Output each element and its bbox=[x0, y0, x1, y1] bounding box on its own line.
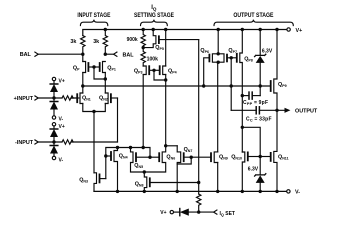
transistor QN8 bbox=[144, 172, 147, 191]
transistor QN1 (input + ) bbox=[80, 93, 83, 104]
node dot QP-QP1 gates bbox=[92, 65, 95, 68]
node dot QP6 gate / first-stage out bbox=[202, 84, 205, 87]
wire gate tie to QP1 drain bbox=[94, 67, 105, 79]
node dot -input/diodes bbox=[52, 140, 55, 143]
svg-text:V+: V+ bbox=[296, 28, 303, 34]
node dot tail bbox=[92, 110, 95, 113]
svg-text:BAL: BAL bbox=[123, 52, 135, 58]
wire BAL left bbox=[38, 53, 83, 55]
wire QP1 drain down bbox=[104, 73, 106, 94]
node dot rail/QP5 bbox=[152, 28, 155, 31]
node dot QN8 drain tie bbox=[143, 170, 146, 173]
stage header INPUT STAGE bbox=[77, 12, 110, 19]
node dot QP3-QP4 gates bbox=[152, 69, 155, 72]
wire QN10 diode tie bbox=[242, 127, 260, 156]
node dot rail QN8 bbox=[143, 190, 146, 193]
wire QP drain down bbox=[82, 73, 84, 94]
wire zener node down to CPP bbox=[259, 86, 261, 96]
svg-text:QN4: QN4 bbox=[119, 154, 128, 160]
svg-text:100k: 100k bbox=[147, 56, 158, 62]
diode D3 (-input to V+) bbox=[53, 126, 55, 129]
node dot rail/900k bbox=[142, 28, 145, 31]
V+ terminal circle (top right) bbox=[287, 28, 290, 31]
node dot zener/first-stage-out bbox=[259, 84, 262, 87]
node dot gate/first-stage-out bbox=[230, 84, 233, 87]
resistor R 3k (right) bbox=[103, 30, 107, 55]
transistor QP9 (output PMOS) bbox=[274, 30, 277, 111]
transistor QP6 bbox=[212, 54, 218, 62]
wire IQ set line bbox=[189, 211, 214, 213]
node dot output bbox=[275, 109, 278, 112]
transistor QN4 bbox=[114, 148, 118, 192]
V- rail (bottom) bbox=[94, 190, 287, 192]
svg-text:QP6: QP6 bbox=[200, 48, 209, 54]
wire gate tie to QP4 drain bbox=[154, 70, 166, 80]
node dot QN4 gate tap bbox=[104, 154, 107, 157]
transistor QN10 bbox=[242, 152, 245, 191]
arrow +input bbox=[35, 96, 38, 100]
brace input stage bbox=[80, 20, 107, 26]
node dot rail/3k2 bbox=[104, 28, 107, 31]
node dot QP1 drain tie bbox=[104, 77, 107, 80]
wire first stage output (y=86) bbox=[83, 85, 271, 87]
resistor 100k bbox=[141, 48, 145, 66]
svg-text:QN11: QN11 bbox=[278, 154, 289, 160]
wire QN7 drain to QN6/QP4 node bbox=[166, 145, 178, 147]
node dot QP7-QP8 gate bbox=[230, 56, 233, 59]
output line with CC cap bbox=[231, 109, 256, 111]
node dot QP4 drain tie bbox=[164, 78, 167, 81]
stage header OUTPUT STAGE bbox=[233, 12, 273, 19]
resistor R 3k (left) bbox=[81, 36, 85, 54]
svg-text:QP7: QP7 bbox=[228, 48, 237, 54]
transistor QP1 (PMOS right load) bbox=[103, 62, 106, 73]
node dot rail QN4 bbox=[116, 190, 119, 193]
node dot rail/QP8 bbox=[241, 28, 244, 31]
node dot rail QN10 bbox=[241, 190, 244, 193]
V+ rail (top) bbox=[83, 30, 287, 36]
svg-text:V-: V- bbox=[295, 190, 300, 196]
-INPUT terminal bbox=[15, 140, 34, 146]
svg-text:QN5: QN5 bbox=[134, 163, 143, 169]
zener Z1 6.3V (top) bbox=[259, 30, 261, 56]
wire QP6/QP7 top to rail bbox=[217, 30, 219, 54]
capacitor CPP 9pF bbox=[242, 95, 249, 97]
transistor QN9 bbox=[214, 152, 218, 163]
V- terminal circle bbox=[287, 190, 290, 193]
node dot QN6/QP4/QN7 drain bbox=[164, 144, 167, 147]
transistor QN2 (input - ) bbox=[105, 93, 108, 104]
svg-text:900k: 900k bbox=[127, 37, 138, 43]
svg-text:OUTPUT STAGE: OUTPUT STAGE bbox=[233, 12, 273, 19]
wire -input bbox=[38, 141, 62, 143]
svg-text:CC = 33pF: CC = 33pF bbox=[246, 117, 272, 123]
V- clamp terminal (-input) bbox=[52, 156, 55, 159]
node dot QP3 drain/bias bbox=[142, 146, 145, 149]
diode D1 (+input to V+) bbox=[53, 81, 55, 84]
transistor QP4 bbox=[163, 66, 166, 75]
zener Z2 6.3V (bottom) bbox=[259, 157, 261, 175]
resistor 900k bbox=[141, 30, 145, 48]
transistor QP3 bbox=[143, 66, 146, 75]
arrow OUTPUT bbox=[285, 108, 291, 113]
node dot QN10 drain tie bbox=[241, 126, 244, 129]
wire QP6 gate tap down to output-drive node bbox=[204, 58, 209, 86]
svg-text:3k: 3k bbox=[93, 39, 99, 45]
transistor QN6 bbox=[144, 146, 165, 172]
V+ terminal (IQ set line) bbox=[160, 210, 166, 216]
wire QP7/8 gate to comp node bbox=[230, 58, 232, 111]
svg-text:3k: 3k bbox=[70, 39, 76, 45]
transistor QN11 (output NMOS) bbox=[274, 110, 277, 191]
node dot rail QN9 bbox=[216, 190, 219, 193]
svg-text:IQ: IQ bbox=[151, 5, 157, 11]
V+ clamp terminal (+input) bbox=[52, 77, 55, 80]
node dot rail QN7 bbox=[176, 190, 179, 193]
node dot QP6/7 top bbox=[217, 52, 220, 55]
stage header IQ SETTING STAGE bbox=[134, 5, 174, 19]
+INPUT terminal bbox=[14, 96, 34, 102]
wire 3k1 to QP source bbox=[82, 54, 84, 61]
svg-text:QN9: QN9 bbox=[219, 154, 228, 160]
wire QN9 source down bbox=[217, 163, 219, 192]
svg-text:QP4: QP4 bbox=[168, 68, 177, 74]
wire QP3 drain down bbox=[142, 75, 144, 148]
svg-text:QN1: QN1 bbox=[82, 96, 91, 102]
svg-text:V+: V+ bbox=[59, 79, 65, 85]
svg-text:6.3V: 6.3V bbox=[262, 49, 273, 55]
node dot first-stage output bbox=[81, 84, 84, 87]
V+ clamp terminal (-input) bbox=[52, 123, 55, 126]
node dot QN10/QN11 gate bbox=[259, 155, 262, 158]
svg-text:QN8: QN8 bbox=[135, 181, 144, 187]
svg-text:+INPUT: +INPUT bbox=[14, 96, 34, 102]
brace output stage bbox=[214, 20, 293, 26]
wire QP4 source to rail bbox=[165, 30, 167, 67]
node dot QN5 drain/bias bbox=[129, 146, 132, 149]
svg-text:QN3: QN3 bbox=[79, 178, 88, 184]
wire QP5 gate line down (IQ bias) bbox=[198, 40, 200, 194]
arrow BAL right bbox=[114, 52, 117, 56]
resistor IQ set bbox=[197, 194, 201, 212]
node dot IQ set bbox=[197, 210, 200, 213]
node dot rail/zener bbox=[259, 28, 262, 31]
svg-text:-INPUT: -INPUT bbox=[15, 140, 34, 146]
svg-text:QP9: QP9 bbox=[278, 82, 287, 88]
svg-text:QP: QP bbox=[73, 65, 80, 71]
arrow IQ SET bbox=[214, 210, 217, 214]
svg-text:OUTPUT: OUTPUT bbox=[295, 109, 318, 115]
svg-text:QN10: QN10 bbox=[231, 154, 242, 160]
arrow BAL left bbox=[35, 52, 38, 56]
svg-text:BAL: BAL bbox=[20, 52, 32, 58]
svg-text:V-: V- bbox=[59, 158, 64, 164]
wire QN2 gate down to -input bbox=[117, 98, 119, 142]
wire QP4 drain down bbox=[165, 75, 167, 146]
svg-text:V-: V- bbox=[59, 116, 64, 122]
svg-text:QP3: QP3 bbox=[134, 68, 143, 74]
svg-text:SETTING STAGE: SETTING STAGE bbox=[134, 12, 174, 19]
transistor QP5 bbox=[143, 30, 156, 48]
node dot rail/QP6-QP7 bbox=[217, 28, 220, 31]
wire input pair sources bbox=[83, 104, 106, 112]
arrow -input bbox=[35, 140, 38, 144]
transistor QP7 bbox=[218, 54, 224, 62]
svg-text:6.3V: 6.3V bbox=[248, 166, 259, 172]
node dot QN7 gate bbox=[190, 156, 193, 159]
svg-text:INPUT STAGE: INPUT STAGE bbox=[77, 12, 110, 19]
node dot rail QN11 bbox=[275, 190, 278, 193]
brace IQ setting stage bbox=[141, 20, 168, 26]
svg-text:QP8: QP8 bbox=[244, 56, 253, 62]
wire +input bbox=[38, 97, 62, 99]
svg-text:QP1: QP1 bbox=[107, 65, 116, 71]
svg-text:QN6: QN6 bbox=[166, 154, 175, 160]
wire BAL right bbox=[105, 53, 113, 55]
svg-text:IQ SET: IQ SET bbox=[220, 211, 235, 217]
diode D4 (V- to -input) bbox=[53, 142, 55, 146]
node dot 900k/QP5/100k bbox=[142, 46, 145, 49]
svg-text:CPP = 9pF: CPP = 9pF bbox=[243, 100, 268, 106]
transistor QN7 bbox=[177, 146, 181, 192]
svg-text:QN2: QN2 bbox=[99, 96, 108, 102]
svg-text:V+: V+ bbox=[59, 124, 65, 130]
resistor input protection (+) bbox=[62, 96, 73, 100]
diode D2 (V- to +input) bbox=[53, 98, 55, 102]
node dot +input/diodes bbox=[52, 96, 55, 99]
transistor QN5 bbox=[131, 148, 145, 173]
wire QN9 drain up to QP6/QP7 bbox=[217, 62, 219, 152]
V- clamp terminal (+input) bbox=[52, 116, 55, 119]
wire QN7 gate-source tie bbox=[177, 157, 191, 164]
svg-text:V+: V+ bbox=[160, 210, 166, 216]
transistor QN3 bbox=[94, 173, 97, 192]
bias rail (QN mirror gates/drains) bbox=[106, 148, 150, 179]
node dot BAL/3k1 bbox=[81, 53, 84, 56]
node dot rail/QP9 bbox=[275, 28, 278, 31]
svg-text:QP5: QP5 bbox=[155, 45, 164, 51]
node dot CPP/QP8 drain bbox=[241, 94, 244, 97]
transistor QP8 bbox=[240, 30, 243, 153]
node dot QN4 drain/bias bbox=[116, 146, 119, 149]
node dot rail zener bbox=[259, 190, 262, 193]
wire tail down to QN3 bbox=[93, 112, 95, 173]
node dot BAL/3k2 bbox=[104, 53, 107, 56]
svg-text:QN7: QN7 bbox=[184, 147, 193, 153]
node dot QN5-QN6 gate tie bbox=[148, 156, 151, 159]
node dot rail/QP4 bbox=[164, 28, 167, 31]
node dot QP6/7 bottom bbox=[217, 61, 220, 64]
resistor input protection (-) bbox=[62, 140, 73, 144]
transistor QP (PMOS left load) bbox=[83, 62, 86, 73]
node dot QN8 gate / IQ line bbox=[197, 181, 200, 184]
diode D5 (IQ set) bbox=[174, 211, 180, 213]
